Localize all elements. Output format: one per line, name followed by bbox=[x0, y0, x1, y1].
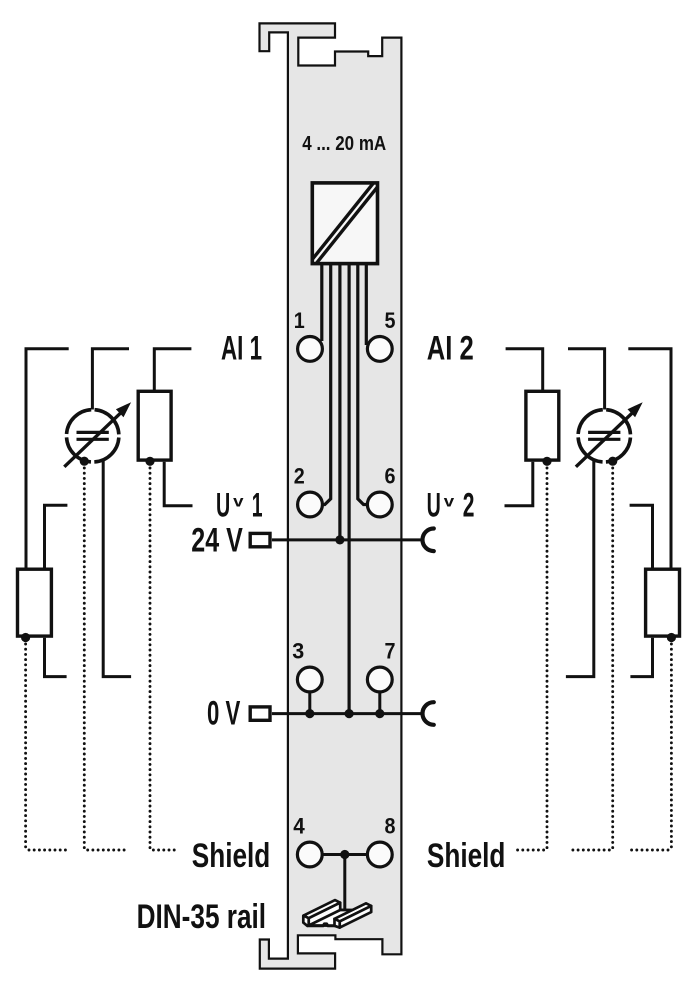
svg-text:Shield: Shield bbox=[427, 837, 506, 875]
0V power jumper contact (left, female) bbox=[250, 707, 270, 720]
transmitter B2 (circle with arrow) bbox=[576, 402, 643, 467]
svg-text:4 ... 20 mA: 4 ... 20 mA bbox=[302, 133, 386, 155]
contact 2 bbox=[298, 492, 323, 517]
wire stub mid (Uv level) bbox=[45, 505, 68, 567]
left flange side face bbox=[309, 903, 341, 926]
wire stub a (top far left) bbox=[26, 349, 69, 568]
left flange near end cap with lip bbox=[303, 916, 308, 926]
shield link wire contacts 4-8 bbox=[322, 853, 368, 856]
wire stub a' (top far right) bbox=[628, 349, 671, 568]
wire B2 down stub bbox=[566, 460, 594, 677]
junction dot contact7/0V bbox=[375, 709, 384, 718]
dotted shield wire from B1 bbox=[84, 468, 127, 850]
svg-text:6: 6 bbox=[385, 464, 396, 489]
wire stub mid' (Uv level) bbox=[630, 505, 653, 567]
wire stub b' to transmitter B2 bbox=[568, 349, 605, 410]
label Uv 1 bbox=[216, 486, 263, 524]
wire U1 to contact 6 bbox=[358, 263, 368, 505]
wire R1 to Uv1 bbox=[164, 462, 192, 506]
svg-text:8: 8 bbox=[385, 814, 396, 839]
stub contact 3 to 0V bbox=[308, 692, 311, 714]
channel floor bbox=[309, 910, 367, 926]
svg-text:2: 2 bbox=[463, 486, 475, 524]
0V power jumper contact (right, male fork) bbox=[422, 702, 433, 725]
contact 6 bbox=[367, 492, 392, 517]
junction dot B1/shield bbox=[80, 457, 89, 466]
wire U1 to contact 5 bbox=[365, 263, 368, 345]
svg-text:v: v bbox=[444, 493, 455, 510]
left flange top face bbox=[304, 900, 341, 918]
svg-text:v: v bbox=[233, 493, 244, 510]
transmitter B1 (circle with arrow) bbox=[64, 402, 131, 467]
svg-text:DIN-35 rail: DIN-35 rail bbox=[137, 898, 267, 936]
svg-text:2: 2 bbox=[294, 464, 305, 489]
dotted shield wire from R1 bbox=[150, 468, 179, 850]
wire U1 to 0V bus bbox=[348, 263, 351, 714]
junction dot shield link bbox=[340, 850, 349, 859]
svg-text:7: 7 bbox=[385, 639, 396, 664]
isolation transducer U1 (square with diagonal) bbox=[312, 183, 377, 264]
contact 5 bbox=[367, 337, 392, 362]
load resistor R1 bbox=[138, 391, 171, 460]
svg-text:1: 1 bbox=[294, 308, 305, 333]
dotted shield wire from B2 bbox=[570, 468, 612, 850]
wire B1 down stub bbox=[103, 460, 131, 677]
junction dot B2/shield bbox=[608, 457, 617, 466]
contact 8 bbox=[367, 842, 392, 867]
resistor R4 (lower right) bbox=[646, 569, 680, 636]
svg-text:3: 3 bbox=[292, 639, 304, 664]
svg-text:0 V: 0 V bbox=[207, 694, 241, 732]
stub contact 7 to 0V bbox=[378, 692, 381, 714]
dotted shield wire from R2 bbox=[26, 644, 69, 850]
junction dot U1/0V bbox=[345, 709, 354, 718]
bus terminal module body K1 (DIN-rail I/O module outline) bbox=[260, 23, 402, 968]
contact 7 bbox=[367, 667, 392, 692]
junction dot 24V feed bbox=[335, 535, 344, 544]
24V power jumper contact (left, female) bbox=[250, 533, 270, 546]
svg-text:5: 5 bbox=[385, 308, 396, 333]
contact 4 bbox=[297, 842, 322, 867]
24V bus wire bbox=[272, 538, 422, 541]
contact 1 bbox=[298, 337, 323, 362]
wire R2 down stub bbox=[45, 638, 67, 677]
load resistor R3 bbox=[526, 391, 559, 460]
wire R4 down stub bbox=[630, 638, 652, 677]
24V power jumper contact (right, male fork) bbox=[422, 529, 433, 552]
right flange side face bbox=[340, 906, 372, 928]
DIN rail symbol (3D hat profile) bbox=[303, 900, 371, 928]
svg-text:AI 2: AI 2 bbox=[427, 330, 474, 368]
junction dot R1/shield bbox=[145, 457, 154, 466]
junction dot R2/shield bbox=[21, 633, 30, 642]
junction dot R4/shield bbox=[667, 633, 676, 642]
svg-text:1: 1 bbox=[252, 486, 263, 524]
svg-text:24 V: 24 V bbox=[191, 521, 243, 559]
wire U1 to contact 2 bbox=[323, 263, 331, 505]
wire stub b to transmitter B1 bbox=[92, 349, 129, 410]
wire U1 to contact 1 bbox=[320, 263, 323, 341]
wire stub c to load resistor R1 bbox=[154, 349, 191, 391]
contact 3 bbox=[297, 667, 322, 692]
wire U1 to 24V bus bbox=[338, 263, 341, 540]
0V bus wire bbox=[272, 712, 422, 715]
dotted shield wire from R3 bbox=[514, 468, 548, 850]
svg-text:U: U bbox=[427, 486, 441, 524]
junction dot contact3/0V bbox=[305, 709, 314, 718]
svg-text:Shield: Shield bbox=[192, 837, 270, 875]
junction dot R3/shield bbox=[542, 457, 551, 466]
right flange near end cap bbox=[335, 919, 340, 928]
wire shield to DIN rail bbox=[343, 855, 346, 910]
label Uv 2 bbox=[427, 486, 475, 524]
right flange top face bbox=[335, 903, 372, 921]
svg-text:AI 1: AI 1 bbox=[221, 330, 262, 368]
resistor R2 (lower left) bbox=[18, 569, 52, 636]
svg-text:4: 4 bbox=[293, 814, 305, 839]
svg-text:U: U bbox=[216, 486, 230, 524]
channel front bottom edge with slot notch bbox=[307, 924, 334, 926]
wire stub c' to load resistor R3 bbox=[506, 349, 543, 391]
dotted shield wire from R4 bbox=[628, 644, 671, 850]
wire R3 to Uv2 bbox=[505, 462, 533, 506]
